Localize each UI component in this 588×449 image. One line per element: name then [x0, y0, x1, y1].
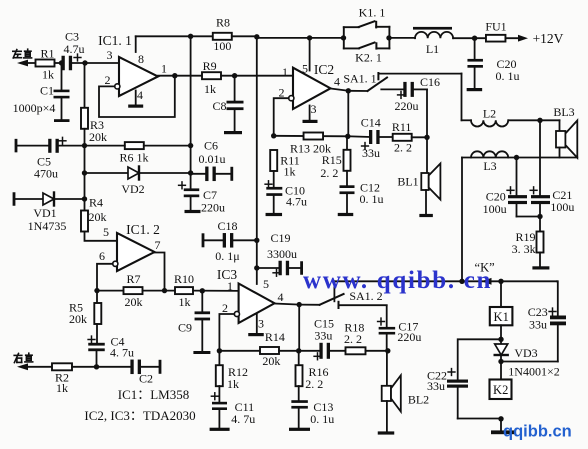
- svg-text:4: 4: [137, 88, 143, 102]
- capacitor C7 220u: [179, 182, 225, 215]
- resistor R18 2.2: [344, 321, 388, 355]
- svg-text:2. 2: 2. 2: [344, 332, 362, 346]
- node C8 junction: [232, 73, 237, 78]
- wire R1 to C3: [55, 62, 64, 64]
- IC1.1 pin4 ground: [128, 91, 143, 108]
- svg-text:33u: 33u: [362, 146, 380, 160]
- node switch right: [386, 35, 391, 40]
- node C20 supply tap: [472, 36, 477, 41]
- node VD2 junction: [82, 170, 87, 175]
- svg-text:5: 5: [103, 225, 109, 239]
- arrow on K line: [482, 278, 492, 285]
- svg-text:C8: C8: [212, 99, 226, 113]
- IC2 output wire: [331, 89, 349, 91]
- capacitor C3 4.7u: [62, 30, 85, 71]
- watermark qqibb.cn bottom: [503, 423, 572, 441]
- capacitor C13 0.1u: [289, 386, 334, 431]
- svg-text:6: 6: [99, 249, 105, 263]
- svg-text:L3: L3: [483, 159, 496, 173]
- node C9 junction: [200, 288, 205, 293]
- IC1.2 pin6 wire: [97, 264, 113, 291]
- svg-text:IC2: IC2: [314, 62, 334, 77]
- svg-text:20k: 20k: [89, 210, 107, 224]
- svg-text:33u: 33u: [427, 379, 445, 393]
- speaker BL2: [382, 351, 429, 412]
- capacitor C16 220u: [381, 75, 440, 113]
- resistor R2 1k: [52, 363, 130, 395]
- node C5 junction: [82, 143, 87, 148]
- node R19 top: [537, 214, 542, 219]
- svg-text:4. 7u: 4. 7u: [231, 412, 255, 426]
- svg-text:1k: 1k: [284, 165, 296, 179]
- svg-text:0. 1u: 0. 1u: [360, 192, 384, 206]
- note IC1 LM358: [118, 387, 190, 402]
- svg-text:1: 1: [227, 279, 233, 293]
- svg-text:220u: 220u: [201, 201, 225, 215]
- wire IC2 output down to R13: [347, 91, 349, 137]
- svg-text:220u: 220u: [397, 330, 421, 344]
- fuse FU1: [485, 20, 506, 42]
- svg-text:220u: 220u: [395, 99, 419, 113]
- svg-text:IC1. 1: IC1. 1: [98, 33, 132, 48]
- wire R4 to IC1.2 pin5: [85, 232, 118, 241]
- capacitor C20 100u: [483, 158, 540, 217]
- wire IC3 output down to R14 line: [298, 305, 300, 351]
- svg-text:C9: C9: [178, 321, 192, 335]
- relay coil K1: [490, 281, 513, 325]
- diode VD3: [495, 344, 538, 362]
- svg-text:2. 2: 2. 2: [320, 166, 338, 180]
- node K1 bottom: [498, 337, 503, 342]
- note IC2 IC3 TDA2030: [84, 408, 195, 423]
- svg-text:4: 4: [334, 75, 340, 89]
- svg-text:0. 1u: 0. 1u: [310, 412, 334, 426]
- svg-text:5: 5: [302, 62, 308, 76]
- svg-text:4: 4: [278, 290, 284, 304]
- svg-text:BL2: BL2: [408, 392, 429, 406]
- svg-text:R7: R7: [126, 272, 140, 286]
- capacitor C8: [212, 76, 243, 135]
- svg-text:33u: 33u: [314, 329, 332, 343]
- op-amp IC1.1: [98, 33, 167, 102]
- svg-text:1k: 1k: [42, 68, 54, 82]
- node IC2 pin5 supply: [307, 35, 312, 40]
- svg-text:R6 1k: R6 1k: [119, 151, 148, 165]
- switch SA1.2: [299, 281, 382, 308]
- node R7 left junction: [94, 288, 99, 293]
- left channel input arrow 左道: [13, 49, 36, 66]
- node R13 right junction: [345, 134, 350, 139]
- IC1.1 output wire: [158, 75, 202, 77]
- capacitor C18 0.1u: [202, 219, 257, 263]
- svg-text:C2: C2: [139, 371, 153, 385]
- svg-text:R9: R9: [203, 59, 217, 73]
- node VD3 bottom: [498, 359, 503, 364]
- svg-text:0. 1μ: 0. 1μ: [215, 249, 239, 263]
- node R14 left junction: [217, 348, 222, 353]
- svg-text:1k: 1k: [56, 381, 68, 395]
- node R14 right junction: [296, 348, 301, 353]
- arrow to +12V: [506, 31, 564, 46]
- wire switch to L1: [389, 37, 415, 39]
- svg-text:IC1. 2: IC1. 2: [126, 222, 160, 237]
- wire K line: [334, 280, 557, 282]
- resistor R9 1k: [202, 59, 293, 96]
- svg-text:33u: 33u: [529, 318, 547, 332]
- svg-text:0.01u: 0.01u: [199, 152, 226, 166]
- svg-text:20k: 20k: [262, 354, 280, 368]
- svg-text:1: 1: [161, 62, 167, 76]
- svg-text:K1. 1: K1. 1: [359, 6, 386, 20]
- svg-text:2. 2: 2. 2: [305, 377, 323, 391]
- svg-text:100u: 100u: [550, 200, 574, 214]
- resistor R1: [36, 47, 55, 82]
- capacitor C22 33u: [427, 339, 501, 418]
- BL1 ground: [419, 190, 433, 217]
- svg-text:1N4735: 1N4735: [28, 219, 67, 233]
- svg-text:3300u: 3300u: [267, 247, 297, 261]
- IC2 pin2 feedback wire: [274, 98, 289, 136]
- node C18 junction: [254, 238, 259, 243]
- op-amp IC1.2: [99, 222, 161, 271]
- op-amp IC2: [279, 62, 341, 117]
- svg-text:1: 1: [282, 65, 288, 79]
- label K node: [475, 261, 495, 275]
- capacitor C11 4.7u: [210, 386, 256, 431]
- capacitor C12 0.1u: [338, 171, 384, 216]
- svg-text:BL1: BL1: [397, 175, 418, 189]
- svg-text:www. qqibb. cn: www. qqibb. cn: [303, 267, 492, 294]
- wire L3 down to K line: [461, 158, 463, 282]
- capacitor C14 33u: [348, 115, 392, 160]
- capacitor C10 4.7u: [265, 171, 307, 216]
- svg-text:8: 8: [138, 52, 144, 66]
- relay contact K1.1: [344, 6, 390, 28]
- svg-text:4. 7u: 4. 7u: [110, 346, 134, 360]
- resistor R13 20k: [274, 133, 348, 156]
- IC1.2 output wire pin7: [155, 253, 165, 291]
- svg-text:VD1: VD1: [33, 206, 56, 220]
- capacitor C6 0.01u: [191, 139, 234, 181]
- svg-text:1k: 1k: [179, 295, 191, 309]
- wire SA1.1 feed down to L2: [461, 74, 463, 121]
- capacitor C23 33u: [501, 281, 566, 361]
- BL2 ground: [378, 401, 395, 435]
- node VD2 right junction: [188, 170, 193, 175]
- relay contact K2.1: [344, 43, 390, 65]
- svg-text:L1: L1: [426, 42, 439, 56]
- node R6 right junction: [188, 143, 193, 148]
- resistor R6 1k: [85, 142, 191, 164]
- svg-text:100u: 100u: [483, 202, 507, 216]
- resistor R10 1k: [174, 272, 239, 309]
- svg-text:C18: C18: [217, 219, 237, 233]
- svg-text:BL3: BL3: [553, 105, 574, 119]
- svg-text:20k: 20k: [69, 312, 87, 326]
- label 1N4001 x2: [508, 364, 559, 378]
- node L3 junction on K line: [459, 279, 464, 284]
- resistor R16 2.2 vertical: [296, 351, 329, 391]
- svg-text:1k: 1k: [204, 82, 216, 96]
- svg-text:2: 2: [105, 73, 111, 87]
- K2 ground: [491, 419, 514, 434]
- node C4 bottom junction: [94, 364, 99, 369]
- diode VD2: [85, 167, 191, 197]
- node R7 R10 junction: [162, 288, 167, 293]
- svg-text:K2. 1: K2. 1: [355, 51, 382, 65]
- svg-text:VD3: VD3: [514, 346, 537, 360]
- svg-text:L2: L2: [483, 107, 496, 121]
- node R13 left junction: [271, 133, 276, 138]
- svg-text:3: 3: [107, 48, 113, 62]
- svg-text:1k: 1k: [227, 377, 239, 391]
- svg-text:470u: 470u: [34, 167, 58, 181]
- node switch left: [341, 35, 346, 40]
- speaker BL1: [397, 164, 440, 200]
- diode VD1 1N4735 with input terminal: [13, 192, 85, 233]
- svg-text:SA1. 1: SA1. 1: [343, 72, 376, 86]
- wire supply rail down to C7: [190, 36, 192, 189]
- capacitor C9: [178, 291, 210, 354]
- IC3 pin2 feedback wire: [219, 314, 234, 351]
- svg-text:C14: C14: [361, 115, 381, 129]
- inductor L1 with core: [413, 27, 453, 56]
- svg-text:7: 7: [155, 238, 161, 252]
- resistor R7 20k: [97, 272, 175, 309]
- capacitor C5 470u with input terminal: [15, 137, 85, 180]
- wire C3 to IC1.1 pin3: [71, 62, 119, 64]
- svg-text:3. 3k: 3. 3k: [512, 242, 536, 256]
- svg-text:C16: C16: [420, 75, 440, 89]
- op-amp IC3: [217, 267, 284, 331]
- node IC1.1 output junction: [172, 73, 177, 78]
- svg-text:FU1: FU1: [485, 20, 506, 34]
- speaker BL3: [540, 105, 577, 158]
- node C20 100u tap: [514, 155, 519, 160]
- svg-text:4.7u: 4.7u: [286, 194, 307, 208]
- IC2 pin5 supply wire: [309, 38, 311, 71]
- svg-text:4.7u: 4.7u: [64, 42, 85, 56]
- svg-text:100: 100: [213, 39, 231, 53]
- svg-text:3: 3: [258, 317, 264, 331]
- svg-text:C1: C1: [40, 84, 54, 98]
- node K2 bottom: [498, 416, 503, 421]
- capacitor C1 1000p x4: [13, 63, 70, 122]
- wire L1 to FU1: [453, 37, 486, 39]
- capacitor C17 220u: [378, 305, 422, 350]
- capacitor C21 100u: [530, 120, 574, 216]
- resistor R14 20k: [219, 330, 298, 368]
- svg-text:K1: K1: [494, 310, 509, 324]
- wire K1 to VD3: [500, 325, 502, 344]
- svg-text:R10: R10: [174, 272, 194, 286]
- capacitor C2: [130, 360, 161, 386]
- node C1 junction: [59, 60, 64, 65]
- wire R8 to +12V rail: [232, 36, 344, 38]
- inductor L3: [471, 151, 508, 173]
- node K1 top: [498, 279, 503, 284]
- inductor L2: [462, 107, 541, 127]
- svg-text:IC2, IC3：TDA2030: IC2, IC3：TDA2030: [84, 408, 195, 423]
- node rail to IC3 supply: [254, 34, 259, 39]
- node BL2 top: [385, 348, 390, 353]
- svg-text:R14: R14: [265, 330, 285, 344]
- svg-text:R15: R15: [322, 153, 342, 167]
- node R11 right junction: [424, 135, 429, 140]
- node supply rail tap: [188, 34, 193, 39]
- IC1.1 pin8 supply wire: [135, 36, 137, 52]
- wire R3 to R4 rail: [84, 129, 86, 211]
- svg-text:VD2: VD2: [121, 182, 144, 196]
- svg-text:R8: R8: [216, 16, 230, 30]
- svg-text:+12V: +12V: [533, 31, 564, 46]
- node IC2 output: [346, 88, 351, 93]
- resistor R15 2.2 vertical: [320, 136, 350, 180]
- wire IC1.1 supply to R8: [136, 35, 213, 37]
- wire SA1.1 contact to L2 feed: [378, 73, 461, 75]
- svg-text:qqibb.cn: qqibb.cn: [503, 423, 572, 441]
- svg-text:R11: R11: [392, 120, 412, 134]
- capacitor C20 0.1u at supply: [467, 38, 520, 91]
- svg-text:R4: R4: [89, 196, 103, 210]
- svg-text:3: 3: [311, 102, 317, 116]
- node IC3 output: [297, 302, 302, 307]
- svg-text:5: 5: [263, 277, 269, 291]
- svg-text:IC1：LM358: IC1：LM358: [118, 387, 190, 402]
- relay coil K2: [490, 362, 512, 400]
- svg-text:20k: 20k: [125, 295, 143, 309]
- svg-text:R1: R1: [40, 47, 54, 61]
- IC3 output wire: [275, 304, 300, 305]
- IC1.1 feedback wire pin2 to output: [99, 76, 175, 117]
- node C19 junction: [254, 265, 259, 270]
- resistor R12 1k vertical: [216, 351, 248, 391]
- wire SA1.2 contact to C17: [339, 304, 387, 306]
- svg-text:20k: 20k: [89, 130, 107, 144]
- wire C3 node down to R3: [84, 63, 86, 108]
- resistor R11 1k vertical: [270, 150, 300, 179]
- wire +12V rail down to IC3 pin5: [256, 37, 258, 284]
- resistor R19 3.3k: [512, 217, 550, 270]
- node BL3 top: [537, 118, 542, 123]
- IC3 pin3 ground: [248, 314, 264, 337]
- capacitor C15 33u: [299, 317, 346, 360]
- right channel input arrow 右道: [14, 353, 52, 370]
- resistor R5 20k vertical: [69, 291, 101, 326]
- capacitor C4 4.7u: [88, 324, 134, 367]
- watermark www.qqibb.cn: [303, 267, 492, 294]
- node VD1 junction: [82, 196, 87, 201]
- svg-text:C19: C19: [270, 231, 290, 245]
- resistor R4 20k: [81, 196, 107, 232]
- svg-text:2: 2: [222, 301, 228, 315]
- svg-text:C20: C20: [486, 189, 506, 203]
- resistor R3 20k: [81, 108, 107, 144]
- svg-text:2. 2: 2. 2: [394, 140, 412, 154]
- node C3 output: [82, 60, 87, 65]
- wire switch box verticals: [344, 27, 390, 49]
- wire BL3 bottom line: [462, 157, 577, 159]
- svg-text:K2: K2: [493, 383, 508, 397]
- svg-text:C6: C6: [204, 139, 218, 153]
- switch SA1.1: [343, 72, 387, 92]
- svg-text:1N4001×2: 1N4001×2: [508, 364, 559, 378]
- IC2 pin3 ground: [303, 106, 318, 124]
- svg-text:1000p×4: 1000p×4: [13, 101, 56, 115]
- svg-text:0. 1u: 0. 1u: [496, 69, 520, 83]
- capacitor C19 3300u: [257, 231, 303, 276]
- resistor R8 100: [213, 16, 232, 53]
- resistor R11 2.2 horizontal: [392, 120, 427, 154]
- wire C16 rail down to BL1: [426, 89, 428, 173]
